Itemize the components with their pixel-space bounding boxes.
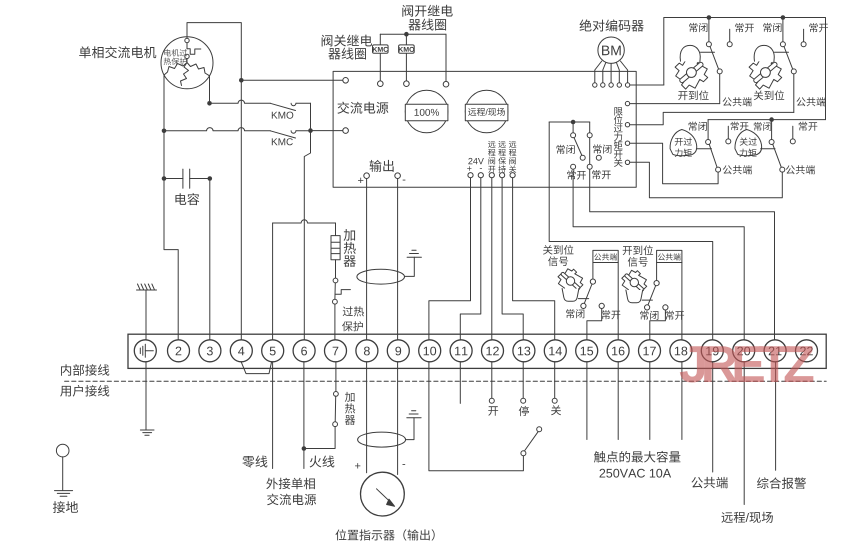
contact pole B NC — [596, 155, 601, 160]
terminal 13 — [513, 340, 535, 362]
label 常开 开到位信号 — [665, 311, 673, 320]
label 过热保护 — [343, 306, 353, 316]
terminal coil return — [443, 81, 449, 87]
label 常开 row2 R — [799, 122, 807, 131]
wire KMO row with hop — [210, 100, 271, 103]
label 综合报警 — [757, 477, 769, 489]
wire heater loop right — [335, 223, 337, 236]
label 开到位 — [623, 246, 632, 255]
terminal 10 — [419, 340, 441, 362]
wire terminal10 to local switch — [429, 362, 524, 471]
terminal limit T2 — [625, 123, 629, 127]
label 远程保持 vertical — [498, 141, 505, 148]
wire 公共端 box to terminal 16 — [617, 263, 619, 340]
wire 关到位 common down to limit T2 — [793, 74, 795, 113]
label 常闭 开到位信号 — [640, 311, 648, 320]
wire terminal18 down — [681, 362, 683, 440]
label 常开 row2 L — [731, 122, 739, 131]
label 内部接线 — [61, 364, 71, 376]
torque switch 关过力矩 — [735, 120, 785, 173]
control box 交流电源 outline — [333, 71, 636, 187]
terminal 5 — [262, 340, 284, 362]
node capacitor left — [162, 176, 167, 181]
wire capacitor-left down jog to terminal 2 — [164, 181, 178, 340]
terminal 12 — [482, 340, 504, 362]
terminal output + — [364, 173, 370, 179]
torque switch 开过力矩 — [670, 120, 721, 173]
label 阀关继电器线圈 — [322, 35, 333, 47]
wire 24V+ to terminal 10 — [429, 178, 471, 340]
wire row2 rail — [708, 119, 825, 121]
node heater branch junction — [302, 446, 307, 451]
wire KMO coil leads — [405, 34, 407, 45]
label 常闭 row1 L — [689, 23, 697, 32]
contact stub 常开 row2 L — [727, 126, 729, 139]
label 24V — [468, 158, 472, 164]
label 阀开继电器线圈 — [402, 5, 413, 17]
wire node down to terminal 4 — [240, 80, 242, 339]
node rail-open-limit — [707, 15, 712, 20]
terminal 3 — [199, 340, 221, 362]
wire 远程保持 to terminal 13 — [502, 178, 523, 340]
terminal KMO coil bottom — [404, 81, 410, 87]
label 常开 row1 R — [809, 23, 817, 32]
selector pole A — [572, 122, 574, 133]
label 触点的最大容量 — [594, 451, 606, 463]
label 公共端 row1 L — [723, 97, 732, 106]
wire terminal14 to 关 button — [554, 362, 556, 398]
label 加热器 user vertical — [345, 392, 355, 402]
label 常开 selector L — [567, 170, 575, 179]
terminal limit T4 — [625, 160, 629, 164]
box 公共端 开到位信号 — [657, 250, 682, 262]
wire selector feed to terminal 19 — [549, 122, 713, 340]
label 火线 — [310, 456, 322, 468]
label 公共端 row2 R — [786, 165, 795, 174]
contact stub 常开 row1 R — [803, 29, 805, 42]
wire 开到位 common down to limit T1 — [719, 74, 721, 104]
wire 关到位信号 NO to terminal 15 — [587, 309, 602, 340]
label 关 — [551, 405, 561, 415]
label 关到位 — [543, 245, 553, 255]
terminal encoder pin4 — [617, 83, 621, 87]
wire terminal20 down — [743, 362, 745, 505]
label 用户接线 — [60, 386, 71, 397]
wire terminal12 to 开 button — [491, 362, 493, 398]
node KMO row start — [207, 101, 212, 106]
terminal KMC coil bottom — [378, 81, 384, 87]
terminal 24V- — [478, 173, 483, 178]
wire 开过力矩 common to limit T3 — [630, 143, 718, 184]
wire 24V- to terminal 11 — [460, 178, 481, 340]
relay coil KMO — [399, 45, 415, 53]
label 输出 output — [370, 160, 382, 172]
local knife switch — [521, 451, 526, 456]
wire coil rail — [380, 33, 446, 35]
terminal 4 — [230, 340, 252, 362]
wire motor right winding down — [209, 76, 211, 101]
thermal switch 过热保护 — [333, 278, 338, 283]
label 常开 关到位信号 — [602, 310, 610, 319]
label motor title 单相交流电机 — [79, 46, 91, 58]
cam switch 关到位信号 — [558, 269, 604, 309]
wire 开到位信号 common up to box — [656, 263, 658, 281]
wire terminal9 to indicator - — [397, 362, 399, 475]
indicator 100% position meter — [405, 90, 448, 133]
node capacitor right — [208, 176, 213, 181]
selector switch 远程/现场 feed — [549, 121, 590, 123]
label 位置指示器（输出） — [335, 529, 346, 540]
label 常闭 row2 L — [689, 122, 697, 131]
terminal limit T3 — [625, 141, 629, 145]
wire motor top to node — [187, 23, 241, 78]
wire heater loop top with hop — [273, 220, 336, 223]
node coil rail junction — [404, 32, 409, 37]
wire KMC coil leads — [379, 34, 381, 45]
terminal 远程阀关 — [510, 173, 515, 178]
node KMC row start — [162, 129, 167, 134]
earth protective ground — [140, 429, 154, 431]
terminal output - — [395, 173, 401, 179]
terminal box input L1 — [343, 78, 349, 84]
cam switch 开到位信号 — [622, 270, 668, 310]
terminal 远程保持 — [500, 173, 505, 178]
label 外接单相交流电源 — [266, 478, 278, 490]
contact stub 常开 row1 L — [729, 29, 731, 42]
label 常闭 row2 R — [754, 122, 762, 131]
terminal 1 earth — [134, 340, 156, 362]
node rail2-close-torque — [769, 117, 774, 122]
label 常闭 selector R — [593, 144, 601, 153]
contact KMC relay contact — [270, 131, 295, 138]
terminal 9 — [387, 340, 409, 362]
selector pole B — [589, 122, 591, 133]
label 公共端 row1 R — [797, 97, 806, 106]
terminal 6 — [293, 340, 315, 362]
label 公共端 user — [691, 477, 702, 488]
wire top rail — [664, 18, 826, 120]
label 交流电源 — [337, 102, 349, 114]
shield ellipse upper — [357, 269, 405, 284]
wire heater loop left to terminal 5 — [272, 223, 274, 340]
wire terminal8 to indicator + — [366, 362, 368, 473]
wire motor left winding down — [163, 75, 165, 176]
chassis ground internal — [145, 290, 147, 340]
encoder BM — [598, 37, 624, 63]
label 远程/现场 user — [721, 512, 732, 523]
earth upper shield — [407, 256, 421, 258]
label motor thermal 电机过热保护 — [164, 49, 171, 56]
terminal encoder pin1 — [593, 83, 597, 87]
wire terminal5 to neutral 零线 — [272, 362, 274, 469]
label 电容 — [175, 193, 186, 205]
wire terminal19 down — [712, 362, 714, 472]
wire 远程阀开 to terminal 12 — [491, 178, 493, 340]
label 开 — [488, 406, 498, 415]
label 远程阀开 vertical — [488, 141, 495, 148]
wire capacitor-right down to terminal 3 — [209, 181, 211, 340]
terminal 16 — [607, 340, 629, 362]
terminal 8 — [356, 340, 378, 362]
label 接地 — [53, 501, 65, 513]
label 信号 2 — [628, 257, 638, 267]
label 远程阀关 vertical — [509, 141, 516, 148]
wire terminal21 down — [775, 362, 777, 470]
label 常开 selector R — [592, 170, 600, 179]
wire KMC row with hops — [164, 128, 270, 131]
label 关到位 row1 — [754, 91, 764, 101]
wire selector poleB NO to terminal 21 — [590, 169, 775, 339]
label 常闭 row1 R — [763, 23, 771, 32]
terminal 20 — [733, 340, 755, 362]
label 信号 — [548, 256, 558, 266]
label 限位过力矩开关 vertical — [614, 107, 622, 115]
terminal encoder pin2 — [601, 83, 605, 87]
wire terminal16 down — [617, 362, 619, 440]
separator dashed user/internal — [65, 380, 827, 382]
wire encoder pins — [595, 61, 602, 83]
label 加热器 vertical — [344, 229, 356, 241]
wire coil return lead — [445, 34, 447, 81]
label 绝对编码器 — [580, 19, 592, 31]
motor M1 single-phase AC motor — [161, 37, 213, 89]
watermark JRETZ — [680, 346, 814, 382]
wire 关过力矩 common to limit T4 — [630, 162, 783, 198]
terminal 14 — [544, 340, 566, 362]
terminal encoder pin5 — [625, 83, 629, 87]
terminal encoder pin3 — [609, 83, 613, 87]
indicator 远程/现场 selector display — [465, 90, 508, 133]
wire junction jog down to terminal 6 — [304, 131, 310, 340]
box 公共端 关到位信号 — [593, 250, 618, 262]
label indicator + - — [355, 463, 360, 468]
label 常闭 selector L — [556, 145, 564, 154]
contact pole A NO — [571, 164, 576, 169]
node rail-close-limit — [781, 15, 786, 20]
node selector feed — [571, 120, 576, 125]
label KMO — [272, 112, 278, 119]
heater R1 加热器 — [331, 236, 340, 260]
wire terminal11 stub — [459, 362, 461, 404]
label 常闭 关到位信号 — [566, 309, 574, 318]
node junction motor-line — [239, 78, 244, 83]
wire terminal1 to protective earth — [145, 362, 147, 430]
label 零线 — [242, 456, 254, 468]
terminal 22 — [796, 340, 818, 362]
node KMO-KMC junction — [308, 128, 313, 133]
terminal 7 — [325, 340, 347, 362]
terminal 远程阀开 — [489, 173, 494, 178]
wire node to AC box input L1 — [241, 79, 342, 81]
label KMC — [272, 138, 278, 145]
wire selector poleA NO to terminal 20 — [573, 169, 744, 339]
wire 开到位信号 NO to terminal 17 — [650, 310, 666, 340]
terminal limit T1 — [625, 101, 629, 105]
wire junction to AC box input L2 — [311, 130, 343, 132]
contact stub 常开 row2 R — [792, 126, 794, 139]
earth electrode 接地 — [56, 444, 69, 457]
user heater switch 加热器 — [334, 392, 339, 397]
terminal 24V+ — [468, 173, 473, 178]
shield ellipse lower — [358, 432, 406, 447]
wire terminal15 down — [586, 362, 588, 440]
position indicator 位置指示器 — [361, 472, 405, 516]
jumper terminal4-terminal5 — [241, 362, 271, 374]
terminal 15 — [576, 340, 598, 362]
label 常开 row1 L — [735, 23, 743, 32]
wire 远程阀关 to terminal 14 — [513, 178, 555, 340]
cam switch 关到位 close-limit — [749, 18, 796, 90]
terminal 17 — [639, 340, 661, 362]
terminal box input L2 — [343, 128, 349, 134]
capacitor C1 电容 — [182, 169, 184, 188]
terminal 19 — [701, 340, 723, 362]
cam switch 开到位 open-limit — [675, 18, 722, 90]
wire encoder pin5 to top rail — [630, 84, 664, 86]
wire terminal6 to live 火线 — [303, 362, 305, 469]
wire output+ to terminal 8 — [366, 179, 368, 340]
label 公共端 row2 L — [723, 165, 732, 174]
terminal strip — [128, 334, 826, 368]
wire KMO contact to junction — [296, 102, 310, 104]
wire terminal13 to 停 button — [522, 362, 524, 398]
wire terminal7 to user heater switch — [335, 362, 337, 392]
label 停 — [519, 406, 529, 416]
wire output- to terminal 9 — [397, 179, 399, 340]
wire 公共端 box to terminal 18 — [681, 263, 683, 340]
terminal 11 — [450, 340, 472, 362]
relay coil KMC — [373, 45, 389, 53]
terminal 18 — [670, 340, 692, 362]
label 开到位 row1 — [678, 91, 687, 100]
earth lower shield — [407, 417, 421, 419]
wire terminal17 down — [649, 362, 651, 440]
contact KMO relay contact — [270, 103, 295, 110]
wire KMC contact to node — [296, 130, 308, 132]
terminal 2 — [168, 340, 190, 362]
terminal 21 — [764, 340, 786, 362]
wire 关到位信号 common up to box — [592, 263, 594, 280]
wire user heater to live junction — [304, 427, 335, 449]
wire heater to thermal switch — [335, 260, 337, 278]
